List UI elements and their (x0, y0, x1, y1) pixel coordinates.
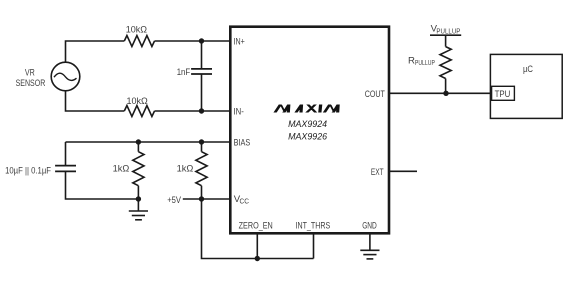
svg-text:1nF: 1nF (177, 67, 191, 78)
wire R1 to IN+ (155, 40, 231, 42)
wire rail to Rpullup (445, 35, 447, 46)
Vpullup rail bar (430, 34, 461, 36)
label Vpullup (431, 24, 461, 36)
svg-text:PULLUP: PULLUP (415, 60, 435, 67)
wire INT_THRS pin (313, 233, 315, 258)
svg-text:MAX9924: MAX9924 (288, 119, 327, 130)
microcontroller box uC (490, 54, 562, 118)
resistor R5 Rpullup (440, 47, 451, 79)
pin label VCC (234, 194, 249, 206)
svg-text:10kΩ: 10kΩ (127, 96, 148, 107)
svg-text:10kΩ: 10kΩ (126, 24, 147, 35)
wire sensor bottom to R2 (66, 91, 125, 111)
capacitor C1 1nF (191, 41, 212, 111)
svg-text:10µF || 0.1µF: 10µF || 0.1µF (5, 165, 51, 176)
MAXIM logo (273, 105, 339, 113)
svg-text:BIAS: BIAS (234, 138, 251, 149)
svg-text:CC: CC (240, 198, 250, 205)
wire ZERO_EN pin (256, 233, 258, 258)
node dot COUT (443, 91, 448, 96)
ground symbol under GND (360, 250, 379, 259)
svg-text:µC: µC (523, 64, 533, 75)
wire COUT to TPU (389, 92, 490, 94)
node dot IN- (199, 108, 204, 113)
node dot R3 bottom (136, 196, 141, 201)
wire VCC node down to ZERO_EN/INT_THRS (202, 199, 314, 259)
TPU box (492, 86, 515, 100)
svg-text:+5V: +5V (167, 195, 181, 206)
svg-text:VR: VR (25, 68, 35, 79)
wire Rpullup to COUT node (445, 79, 447, 94)
label VR SENSOR (16, 68, 46, 90)
node dot VCC (199, 196, 204, 201)
ground symbol left (129, 199, 148, 220)
resistor R3 1k (left) (133, 142, 144, 199)
svg-text:SENSOR: SENSOR (16, 78, 46, 89)
capacitor C2 10uF||0.1uF (55, 142, 138, 199)
IC U1 MAX9924/MAX9926 (230, 27, 389, 234)
svg-text:TPU: TPU (495, 89, 511, 100)
wire EXT stub (389, 170, 417, 172)
node dot BIAS-R4 (199, 139, 204, 144)
svg-text:PULLUP: PULLUP (436, 28, 460, 35)
resistor R2 10k (bottom) (124, 106, 154, 117)
svg-text:INT_THRS: INT_THRS (296, 221, 331, 232)
node dot ZERO_EN (255, 256, 260, 261)
svg-text:ZERO_EN: ZERO_EN (239, 221, 273, 232)
wire +5V to VCC (183, 198, 231, 200)
svg-text:IN+: IN+ (234, 37, 246, 48)
wire BIAS (66, 141, 231, 143)
svg-text:GND: GND (362, 221, 377, 232)
node dot IN+ (199, 38, 204, 43)
node dot BIAS-R3 (136, 139, 141, 144)
resistor R1 10k (top) (124, 36, 154, 47)
svg-text:COUT: COUT (365, 89, 385, 100)
wire GND pin (369, 234, 371, 250)
svg-text:1kΩ: 1kΩ (177, 164, 194, 175)
svg-text:EXT: EXT (371, 167, 384, 178)
svg-text:1kΩ: 1kΩ (113, 164, 130, 175)
label Rpullup (408, 55, 435, 67)
wire sensor top to R1 (66, 41, 125, 62)
resistor R4 1k (right) (196, 142, 207, 199)
svg-text:MAX9926: MAX9926 (288, 132, 328, 143)
VR sensor source (51, 62, 80, 91)
wire R2 to IN- (155, 110, 231, 112)
svg-text:IN-: IN- (234, 107, 244, 118)
